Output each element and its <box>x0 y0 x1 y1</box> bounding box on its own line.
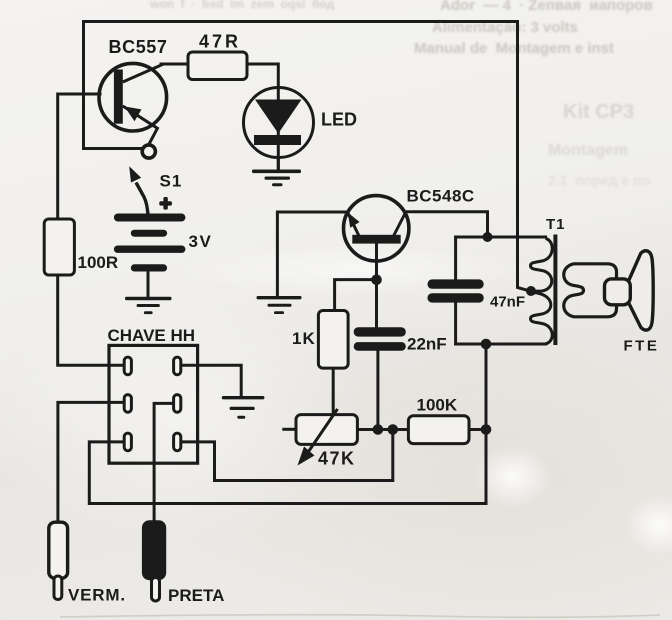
svg-text:T1: T1 <box>546 216 566 233</box>
wire 100R to switch row1 <box>58 275 124 365</box>
ghost bottom edge mark <box>60 615 660 618</box>
node B center tap dot <box>526 286 536 296</box>
wire row2 left to VERM <box>58 402 124 522</box>
svg-text:Manual de Montagem e inst: Manual de Montagem e inst <box>414 40 614 57</box>
battery B1 3V <box>114 214 185 272</box>
wire 22nF to node dots <box>376 350 379 429</box>
switch pin 2 <box>174 357 181 375</box>
plug VERM tip <box>54 576 62 600</box>
switch pin 5 <box>124 433 131 451</box>
wire collector BC548C to node A <box>406 212 488 237</box>
wire row2 right to PRETA <box>154 403 174 525</box>
switch S1 contact circle <box>142 145 155 158</box>
potentiometer 47K <box>296 409 357 466</box>
svg-text:VERM.: VERM. <box>68 586 126 605</box>
wire switch row3 right to dot2 <box>181 430 393 481</box>
svg-text:Ador — 4 · Zепвая иапоров: Ador — 4 · Zепвая иапоров <box>440 0 653 14</box>
node dot2 <box>388 424 399 435</box>
wire base branch to 1K <box>335 280 377 311</box>
svg-text:47nF: 47nF <box>490 294 525 311</box>
transformer T1 primary winding <box>531 239 553 344</box>
wire left vertical to S1 <box>84 22 142 149</box>
plug VERM body <box>49 522 68 578</box>
svg-text:2.1 поред е по: 2.1 поред е по <box>548 172 650 188</box>
resistor 100K <box>408 416 469 444</box>
wire top rail <box>84 22 531 292</box>
ghost Kit CP3 <box>548 101 650 188</box>
svg-text:S1: S1 <box>160 172 183 191</box>
switch pin 6 <box>174 433 181 451</box>
wire 47K to 100K <box>357 428 408 431</box>
wire battery to ground <box>147 271 150 297</box>
svg-text:22nF: 22nF <box>407 335 447 354</box>
svg-text:100R: 100R <box>78 253 119 272</box>
wire emitter BC548C to ground <box>277 212 347 296</box>
wire 1K to 47K pot <box>332 368 335 415</box>
node dot1 <box>373 424 384 435</box>
wire collector BC557 to 47R <box>161 63 188 66</box>
ground under BC548C emitter <box>257 296 302 314</box>
speaker driver <box>605 279 631 305</box>
wire LED to ground <box>277 158 280 170</box>
plug PRETA body <box>143 521 165 579</box>
node A junction dot <box>483 232 493 242</box>
node C junction dot <box>481 339 492 350</box>
svg-text:Montagem: Montagem <box>548 142 628 159</box>
switch S1 lever <box>129 166 148 214</box>
wire base BC557 to 100R <box>58 94 100 219</box>
wire 47nF top lead <box>454 237 457 279</box>
wire base BC548C down <box>375 244 378 328</box>
capacitor 22nF <box>354 327 406 351</box>
transistor Q2 BC548C <box>344 196 409 261</box>
ghost bleedthrough text top <box>149 0 653 57</box>
svg-text:PRETA: PRETA <box>168 586 224 605</box>
wire row1 right to ground <box>181 365 241 395</box>
svg-text:LED: LED <box>321 110 357 130</box>
wire right vertical down to bottom rail <box>89 344 486 504</box>
resistor 100R <box>44 219 74 275</box>
svg-text:3V: 3V <box>189 232 213 251</box>
svg-text:BC557: BC557 <box>109 37 168 57</box>
switch CHAVE HH box <box>109 345 198 463</box>
plug PRETA tip <box>152 578 160 602</box>
ground at switch row1 <box>222 396 265 419</box>
svg-text:47R: 47R <box>199 32 241 52</box>
wire bottom cap to T1 bottom <box>456 343 546 346</box>
svg-text:won f · bsd im zem oqsi: won f · bsd im zem oqsi бод <box>149 0 335 11</box>
LED D1 <box>244 88 314 170</box>
wire 100K to right vertical <box>469 428 486 431</box>
transformer T1 secondary winding <box>564 264 617 317</box>
capacitor 47nF <box>428 279 484 302</box>
switch pin 1 <box>124 357 131 375</box>
wire 47nF bottom lead <box>454 303 457 344</box>
svg-text:FTE: FTE <box>624 338 660 355</box>
node dot3 <box>481 424 492 435</box>
transistor Q1 BC557 <box>99 63 167 144</box>
svg-text:BC548C: BC548C <box>407 187 475 206</box>
resistor 1K <box>318 311 348 369</box>
svg-text:1K: 1K <box>292 329 316 348</box>
node base junction dot <box>371 275 382 286</box>
transformer T1 core <box>553 235 557 346</box>
resistor 47R <box>188 52 247 80</box>
ground under battery <box>125 297 172 314</box>
svg-text:47K: 47K <box>318 449 356 469</box>
wire 47R to LED <box>247 64 278 88</box>
svg-text:CHAVE HH: CHAVE HH <box>108 326 196 345</box>
speaker cone <box>629 251 654 330</box>
battery + sign <box>159 197 172 210</box>
wire 47K left stub <box>282 428 296 431</box>
ground under LED <box>252 170 301 187</box>
wire node A to 47nF and T1 top <box>456 236 546 239</box>
svg-text:Kit CP3: Kit CP3 <box>563 101 634 123</box>
svg-text:100K: 100K <box>417 396 458 415</box>
switch pin 4 <box>174 395 181 413</box>
switch pin 3 <box>124 395 131 413</box>
